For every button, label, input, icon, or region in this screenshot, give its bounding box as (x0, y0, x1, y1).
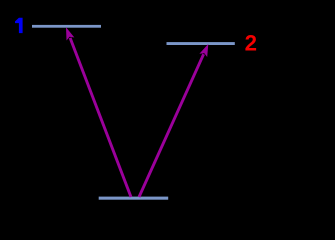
svg-text:2: 2 (245, 30, 257, 55)
